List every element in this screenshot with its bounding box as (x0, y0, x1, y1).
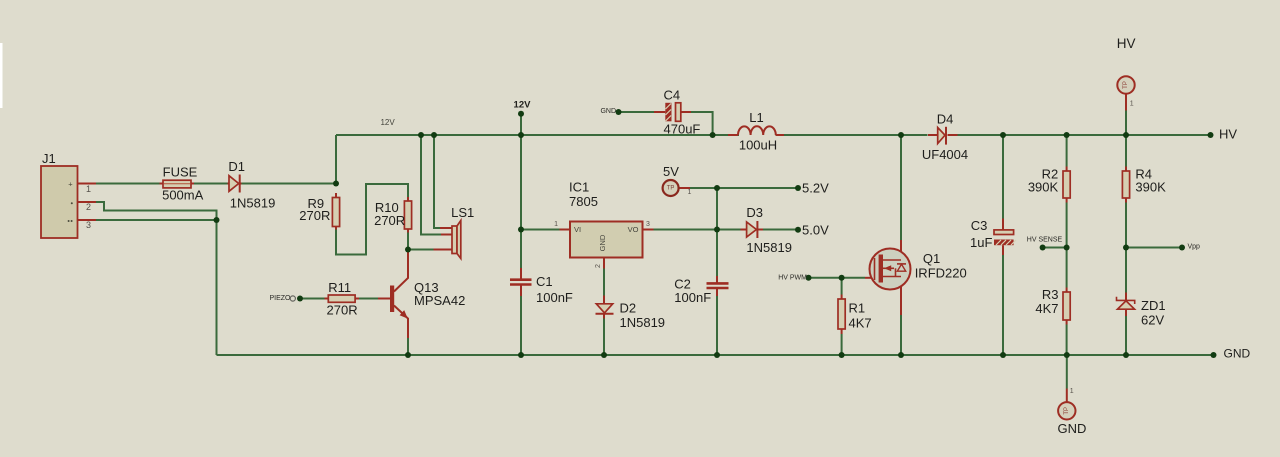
svg-text:4K7: 4K7 (849, 316, 872, 331)
svg-text:C1: C1 (536, 274, 553, 289)
svg-text:7805: 7805 (569, 194, 598, 209)
svg-text:270R: 270R (327, 302, 358, 317)
svg-text:HV SENSE: HV SENSE (1027, 237, 1063, 244)
svg-text:HV PWM: HV PWM (778, 274, 807, 281)
svg-text:GND: GND (1224, 347, 1251, 361)
svg-text:3: 3 (86, 220, 91, 230)
svg-text:2: 2 (86, 202, 91, 212)
svg-text:1: 1 (688, 189, 692, 196)
svg-text:TP: TP (667, 185, 675, 191)
svg-text:1uF: 1uF (970, 235, 992, 250)
svg-text:IRFD220: IRFD220 (915, 266, 967, 281)
svg-text:+: + (68, 180, 73, 189)
svg-text:1N5819: 1N5819 (230, 196, 276, 211)
svg-text:HV: HV (1219, 127, 1237, 142)
svg-text:62V: 62V (1141, 313, 1164, 328)
svg-text:R3: R3 (1042, 287, 1059, 302)
svg-text:PIEZO: PIEZO (269, 295, 291, 302)
svg-text:1: 1 (1070, 388, 1074, 395)
svg-text:VO: VO (628, 225, 639, 234)
svg-text:5V: 5V (663, 164, 679, 179)
svg-text:2: 2 (595, 264, 602, 268)
svg-text:1: 1 (1130, 101, 1134, 108)
svg-text:HV: HV (1117, 36, 1136, 51)
svg-text:UF4004: UF4004 (922, 147, 968, 162)
svg-text:3: 3 (646, 221, 650, 228)
svg-text:390K: 390K (1135, 180, 1166, 195)
svg-text:1N5819: 1N5819 (746, 240, 792, 255)
svg-text:D3: D3 (746, 205, 763, 220)
svg-text:D2: D2 (620, 300, 637, 315)
svg-text:12V: 12V (514, 100, 532, 111)
svg-text:TP: TP (1064, 407, 1070, 415)
svg-text:ZD1: ZD1 (1141, 298, 1166, 313)
svg-text:MPSA42: MPSA42 (414, 293, 465, 308)
svg-text:270R: 270R (299, 208, 330, 223)
svg-text:FUSE: FUSE (163, 164, 198, 179)
svg-text:TP: TP (1123, 81, 1129, 89)
svg-text:100nF: 100nF (674, 290, 711, 305)
svg-text:C4: C4 (664, 87, 681, 102)
svg-text:100uH: 100uH (739, 137, 777, 152)
svg-text:500mA: 500mA (162, 188, 204, 203)
svg-text:12V: 12V (380, 118, 395, 127)
svg-text:D4: D4 (937, 111, 954, 126)
svg-text:1: 1 (554, 221, 558, 228)
svg-text:L1: L1 (749, 110, 763, 125)
svg-text:1: 1 (86, 184, 91, 194)
svg-text:IC1: IC1 (569, 180, 589, 195)
svg-text:Vpp: Vpp (1188, 244, 1201, 251)
svg-text:270R: 270R (374, 213, 405, 228)
svg-text:4K7: 4K7 (1035, 301, 1058, 316)
svg-text:GND: GND (598, 234, 607, 251)
svg-text:C3: C3 (971, 218, 988, 233)
svg-text:390K: 390K (1028, 180, 1059, 195)
svg-text:5.2V: 5.2V (802, 181, 829, 196)
svg-text:R1: R1 (849, 301, 866, 316)
svg-text:LS1: LS1 (451, 205, 474, 220)
svg-text:100nF: 100nF (536, 290, 573, 305)
svg-text:R11: R11 (328, 280, 351, 295)
svg-text:GND: GND (600, 108, 616, 115)
svg-text:VI: VI (574, 225, 581, 234)
svg-text:GND: GND (1058, 421, 1087, 436)
svg-text:J1: J1 (42, 151, 56, 166)
svg-text:470uF: 470uF (664, 122, 701, 137)
svg-text:Q1: Q1 (923, 251, 940, 266)
svg-text:D1: D1 (228, 159, 245, 174)
svg-text:5.0V: 5.0V (802, 222, 829, 237)
svg-text:1N5819: 1N5819 (620, 315, 666, 330)
